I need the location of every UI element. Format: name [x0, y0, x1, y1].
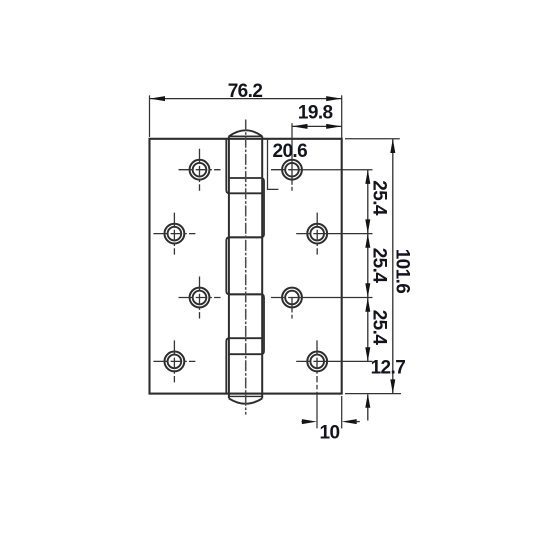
svg-text:25.4: 25.4	[368, 180, 389, 216]
svg-text:101.6: 101.6	[392, 249, 413, 294]
svg-text:12.7: 12.7	[371, 358, 406, 379]
svg-text:25.4: 25.4	[368, 248, 389, 284]
svg-text:10: 10	[320, 423, 340, 444]
svg-text:25.4: 25.4	[368, 310, 389, 346]
svg-text:19.8: 19.8	[298, 102, 333, 123]
svg-text:20.6: 20.6	[273, 141, 308, 162]
svg-text:76.2: 76.2	[228, 81, 263, 102]
